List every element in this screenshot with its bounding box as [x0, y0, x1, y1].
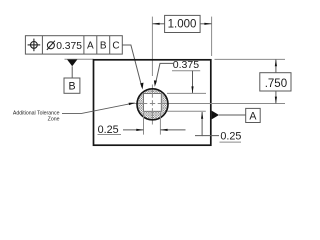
dimension .750 top extension line — [215, 58, 286, 60]
svg-text:A: A — [87, 41, 94, 52]
FCF leader to hole — [122, 45, 142, 87]
svg-text:Zone: Zone — [48, 116, 60, 122]
datum A triangle — [212, 111, 219, 120]
datum B extension line — [65, 58, 94, 60]
datum B stem — [71, 66, 73, 78]
dimension .750 down arrow — [275, 91, 277, 103]
svg-text:0.375: 0.375 — [173, 59, 199, 71]
datum B box — [64, 78, 80, 93]
horizontal centerline — [132, 103, 286, 105]
diameter symbol — [47, 41, 55, 50]
bottom 0.25 left extension line — [143, 113, 145, 135]
dimension 1.000 left arrow — [152, 23, 164, 25]
svg-text:.750: .750 — [265, 78, 287, 90]
hole crosshatch ring — [137, 89, 167, 119]
note leader — [62, 104, 130, 114]
svg-text:1.000: 1.000 — [168, 19, 197, 31]
right 0.25 leader with up arrow — [195, 112, 219, 136]
datum A box — [246, 108, 261, 122]
dimension 0.375 underline — [172, 70, 200, 72]
svg-text:B: B — [68, 81, 75, 93]
feature control frame box — [25, 36, 122, 54]
bottom 0.25 right extension line — [159, 113, 161, 135]
dimension 1.000 right arrow — [200, 23, 212, 25]
position symbol — [28, 39, 41, 52]
datum A leader — [219, 114, 246, 116]
dimension 1.000 basic box — [165, 15, 201, 32]
bottom 0.25 left arrow — [123, 129, 144, 131]
svg-text:0.375: 0.375 — [56, 41, 82, 52]
svg-text:A: A — [249, 110, 257, 122]
leader arrow of 0.375 note — [155, 63, 173, 84]
part outline — [94, 60, 211, 145]
svg-text:B: B — [100, 41, 107, 52]
svg-text:0.25: 0.25 — [220, 130, 241, 142]
datum B triangle — [67, 59, 77, 66]
dimension .750 up arrow — [275, 59, 277, 72]
bottom 0.25 right arrow — [160, 129, 185, 131]
hole circle — [137, 89, 168, 120]
dimension 1.000 left extension line — [151, 17, 153, 76]
dimension 1.000 right extension line — [211, 17, 213, 56]
svg-text:C: C — [112, 41, 119, 52]
dimension 0.375 arrow to square top — [192, 71, 194, 93]
dimension .750 basic box — [260, 73, 291, 91]
right dimension 0.25 underline — [220, 141, 242, 143]
square bottom extension line — [167, 110, 206, 112]
square top extension line — [167, 92, 206, 94]
bottom 0.25 underline — [98, 134, 122, 136]
vertical centerline — [151, 85, 153, 125]
square tolerance zone — [144, 94, 162, 112]
